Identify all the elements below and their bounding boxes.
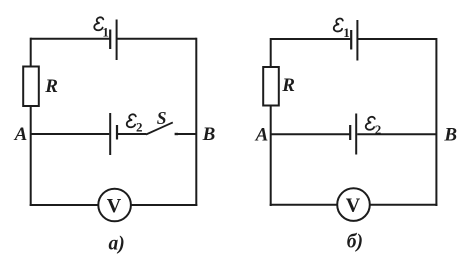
wire bottom-right (voltmeter to corner) — [370, 204, 438, 206]
wire top-left (corner to battery E1) — [31, 38, 110, 40]
wire middle (battery E2 to switch pivot) — [118, 133, 146, 135]
battery E2 short plate — [349, 125, 351, 140]
svg-text:R: R — [44, 76, 58, 97]
svg-text:B: B — [202, 124, 216, 145]
resistor R body — [23, 67, 39, 107]
wire middle-left (A to battery E2) — [271, 133, 350, 135]
battery E1 short plate — [109, 30, 111, 50]
svg-text:1: 1 — [343, 25, 350, 40]
battery E1 long plate — [356, 20, 358, 61]
svg-text:V: V — [346, 195, 361, 217]
svg-text:A: A — [14, 124, 28, 145]
svg-text:б): б) — [347, 232, 363, 253]
wire middle-right (switch to B) — [177, 133, 197, 135]
svg-text:B: B — [443, 124, 457, 145]
voltmeter V body — [337, 188, 370, 221]
battery E2 long plate — [109, 113, 111, 155]
svg-text:1: 1 — [102, 24, 109, 39]
resistor R body — [263, 67, 279, 106]
svg-text:S: S — [157, 108, 167, 128]
wire bottom-right (voltmeter to corner) — [131, 204, 197, 206]
battery E2 short plate — [116, 125, 118, 140]
svg-text:а): а) — [109, 233, 125, 254]
label E2 script-E — [366, 117, 375, 130]
label E1 script-E — [94, 17, 103, 30]
label E1 script-E — [334, 18, 343, 31]
wire top-right (battery E1 to corner) — [117, 38, 197, 40]
wire left lower (resistor to bottom corner) — [270, 106, 272, 207]
switch S fixed contact — [175, 133, 178, 135]
svg-text:A: A — [255, 124, 269, 145]
battery E2 long plate — [355, 114, 357, 155]
wire top-left (corner to battery E1) — [271, 38, 351, 40]
svg-text:V: V — [107, 195, 122, 217]
wire bottom-left (corner to voltmeter) — [30, 204, 99, 206]
svg-text:2: 2 — [136, 120, 143, 135]
wire left upper (corner to resistor) — [30, 38, 32, 67]
label E2 script-E — [127, 114, 136, 127]
wire top-right (battery E1 to corner) — [358, 38, 437, 40]
battery E1 short plate — [350, 30, 352, 50]
battery E1 long plate — [116, 20, 118, 61]
wire left lower (resistor to bottom corner) — [30, 106, 32, 206]
wire left upper (corner to resistor) — [270, 38, 272, 68]
svg-text:R: R — [281, 75, 295, 96]
wire middle-left (A to battery E2) — [31, 133, 110, 135]
wire middle-right (battery E2 to B) — [357, 133, 436, 135]
wire right (top corner to bottom corner) — [435, 38, 437, 206]
wire right (top corner to bottom corner) — [195, 38, 197, 206]
switch S blade — [146, 122, 173, 134]
wire bottom-left (corner to voltmeter) — [270, 204, 338, 206]
voltmeter V body — [98, 189, 131, 222]
